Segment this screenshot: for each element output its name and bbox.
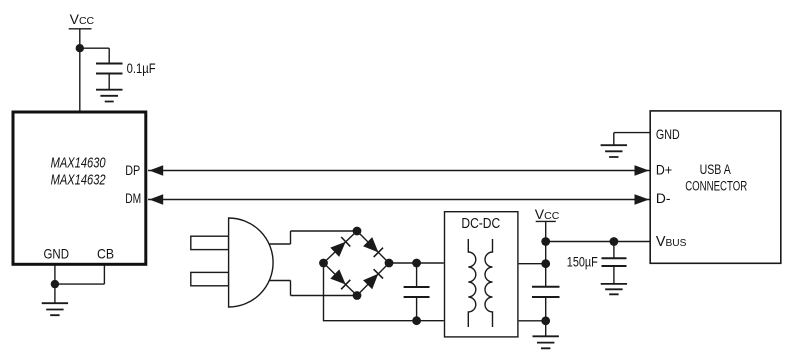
svg-text:DM: DM <box>125 190 141 206</box>
svg-text:DP: DP <box>125 162 140 178</box>
svg-text:CB: CB <box>97 246 114 262</box>
svg-text:MAX14632: MAX14632 <box>51 171 106 188</box>
svg-text:USB A: USB A <box>700 162 731 177</box>
svg-text:CONNECTOR: CONNECTOR <box>685 178 747 193</box>
svg-text:0.1µF: 0.1µF <box>127 60 156 76</box>
svg-text:MAX14630: MAX14630 <box>51 155 106 172</box>
svg-text:150µF: 150µF <box>567 253 598 269</box>
svg-text:GND: GND <box>44 246 70 262</box>
svg-text:D-: D- <box>656 190 671 206</box>
svg-text:D+: D+ <box>656 162 672 178</box>
svg-text:DC-DC: DC-DC <box>461 215 500 232</box>
svg-text:GND: GND <box>656 126 680 142</box>
